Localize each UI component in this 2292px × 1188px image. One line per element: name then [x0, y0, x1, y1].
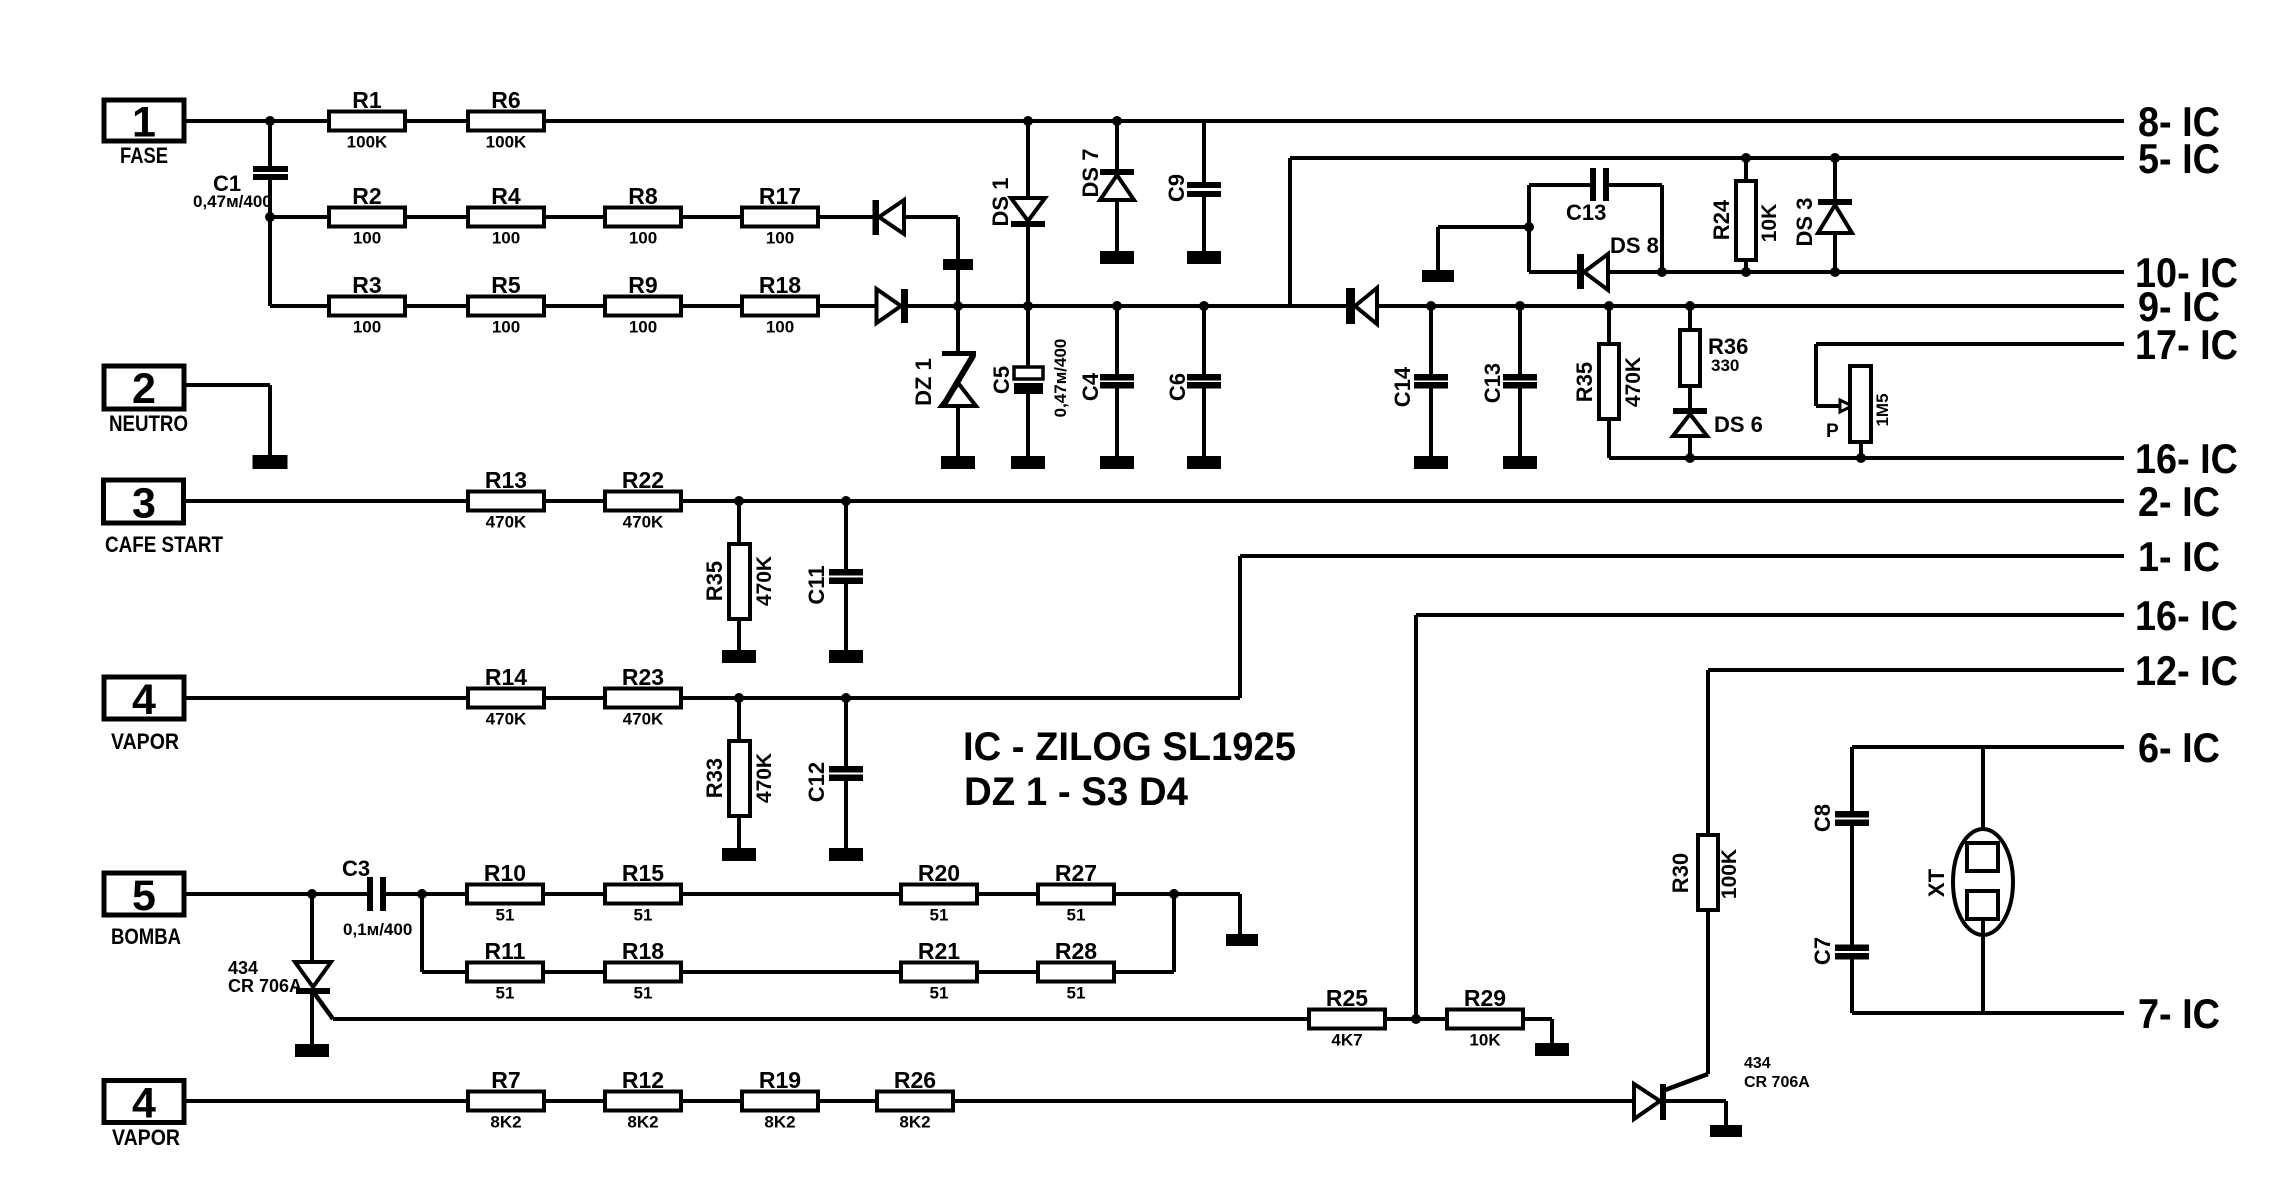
svg-text:8K2: 8K2: [627, 1113, 658, 1132]
svg-text:R17: R17: [759, 183, 801, 209]
svg-text:5- IC: 5- IC: [2138, 135, 2220, 182]
svg-text:DS 6: DS 6: [1714, 412, 1763, 437]
svg-text:10K: 10K: [1469, 1031, 1501, 1050]
svg-text:R18: R18: [622, 938, 664, 964]
svg-text:R5: R5: [491, 272, 521, 298]
svg-text:CR 706A: CR 706A: [228, 976, 302, 996]
svg-text:C8: C8: [1810, 804, 1835, 832]
svg-text:1- IC: 1- IC: [2138, 533, 2220, 580]
svg-text:3: 3: [132, 480, 156, 528]
svg-text:434: 434: [1744, 1055, 1771, 1072]
svg-text:4: 4: [132, 676, 156, 724]
svg-text:7- IC: 7- IC: [2138, 990, 2220, 1037]
svg-text:R23: R23: [622, 664, 664, 690]
svg-text:DS 8: DS 8: [1610, 233, 1659, 258]
svg-text:4: 4: [132, 1080, 156, 1128]
svg-text:CR 706A: CR 706A: [1744, 1074, 1810, 1091]
svg-text:R3: R3: [352, 272, 381, 298]
svg-text:R19: R19: [759, 1067, 801, 1093]
svg-text:8K2: 8K2: [899, 1113, 930, 1132]
svg-text:470K: 470K: [486, 513, 527, 532]
svg-text:NEUTRO: NEUTRO: [109, 411, 188, 436]
svg-text:10K: 10K: [1758, 204, 1781, 243]
svg-text:VAPOR: VAPOR: [111, 729, 179, 754]
svg-text:8K2: 8K2: [490, 1113, 521, 1132]
svg-text:12- IC: 12- IC: [2135, 647, 2238, 694]
svg-text:100K: 100K: [347, 133, 388, 152]
svg-text:C12: C12: [804, 762, 829, 802]
svg-text:C11: C11: [804, 565, 829, 604]
svg-text:51: 51: [930, 984, 949, 1003]
svg-text:VAPOR: VAPOR: [112, 1125, 180, 1150]
svg-text:330: 330: [1711, 356, 1739, 375]
svg-text:R11: R11: [485, 938, 526, 964]
svg-text:IC - ZILOG SL1925: IC - ZILOG SL1925: [963, 725, 1296, 769]
svg-text:R7: R7: [491, 1067, 520, 1093]
svg-text:17- IC: 17- IC: [2135, 321, 2238, 368]
svg-text:0,47м/400: 0,47м/400: [193, 192, 272, 211]
svg-text:C6: C6: [1165, 373, 1190, 401]
svg-text:100: 100: [353, 318, 381, 337]
svg-text:BOMBA: BOMBA: [111, 924, 181, 949]
svg-text:C9: C9: [1164, 174, 1189, 202]
svg-text:R14: R14: [485, 664, 527, 690]
svg-text:16- IC: 16- IC: [2135, 592, 2238, 639]
svg-text:100: 100: [492, 229, 520, 248]
svg-text:5: 5: [132, 872, 156, 920]
svg-text:434: 434: [228, 958, 258, 978]
svg-text:FASE: FASE: [120, 143, 168, 168]
svg-text:470K: 470K: [486, 710, 527, 729]
svg-text:470K: 470K: [623, 710, 664, 729]
svg-text:100: 100: [766, 229, 794, 248]
svg-text:C14: C14: [1390, 366, 1415, 407]
svg-text:100: 100: [353, 229, 381, 248]
svg-text:R29: R29: [1464, 985, 1506, 1011]
svg-text:R2: R2: [352, 183, 381, 209]
svg-text:470K: 470K: [753, 753, 776, 803]
svg-text:0,47м/400: 0,47м/400: [1051, 339, 1070, 418]
svg-text:51: 51: [1067, 984, 1086, 1003]
svg-text:C13: C13: [1566, 200, 1606, 225]
svg-text:DS 7: DS 7: [1078, 149, 1103, 198]
svg-text:R20: R20: [918, 860, 960, 886]
svg-text:2- IC: 2- IC: [2138, 478, 2220, 525]
svg-text:51: 51: [634, 984, 653, 1003]
svg-text:8K2: 8K2: [764, 1113, 795, 1132]
svg-text:0,1м/400: 0,1м/400: [343, 920, 412, 939]
svg-text:470K: 470K: [1622, 357, 1645, 407]
svg-text:51: 51: [496, 906, 515, 925]
svg-text:100: 100: [492, 318, 520, 337]
svg-text:R25: R25: [1326, 985, 1368, 1011]
svg-text:DZ 1 - S3 D4: DZ 1 - S3 D4: [964, 770, 1189, 814]
svg-text:XT: XT: [1924, 868, 1949, 897]
svg-text:100: 100: [629, 318, 657, 337]
svg-text:R18: R18: [759, 272, 801, 298]
svg-text:P: P: [1826, 421, 1839, 442]
svg-text:6- IC: 6- IC: [2138, 724, 2220, 771]
svg-text:R6: R6: [491, 87, 520, 113]
svg-text:51: 51: [496, 984, 515, 1003]
svg-text:R13: R13: [485, 467, 527, 493]
svg-text:R27: R27: [1055, 860, 1097, 886]
svg-text:470K: 470K: [623, 513, 664, 532]
svg-text:100K: 100K: [1718, 849, 1741, 899]
svg-text:R35: R35: [1572, 362, 1597, 402]
svg-text:R33: R33: [702, 758, 727, 798]
svg-text:100K: 100K: [486, 133, 527, 152]
svg-text:R35: R35: [702, 561, 727, 601]
svg-text:C5: C5: [989, 366, 1014, 394]
svg-text:R22: R22: [622, 467, 664, 493]
svg-text:R4: R4: [491, 183, 521, 209]
svg-text:4K7: 4K7: [1331, 1031, 1362, 1050]
svg-text:R10: R10: [484, 860, 526, 886]
svg-text:R24: R24: [1709, 199, 1734, 240]
svg-text:R28: R28: [1055, 938, 1097, 964]
svg-text:DS 3: DS 3: [1792, 198, 1817, 247]
svg-text:C4: C4: [1078, 372, 1103, 401]
svg-text:R12: R12: [622, 1067, 664, 1093]
svg-text:100: 100: [766, 318, 794, 337]
svg-text:1M5: 1M5: [1873, 393, 1892, 426]
svg-text:R8: R8: [628, 183, 658, 209]
svg-text:DS 1: DS 1: [988, 178, 1013, 227]
svg-text:CAFE START: CAFE START: [105, 532, 223, 557]
svg-text:R15: R15: [622, 860, 664, 886]
svg-text:C3: C3: [342, 856, 370, 881]
svg-text:51: 51: [1067, 906, 1086, 925]
svg-text:R30: R30: [1668, 853, 1693, 893]
svg-text:R26: R26: [894, 1067, 936, 1093]
svg-text:100: 100: [629, 229, 657, 248]
svg-text:2: 2: [132, 365, 156, 413]
svg-text:DZ 1: DZ 1: [911, 358, 936, 406]
svg-text:R9: R9: [628, 272, 657, 298]
svg-text:C13: C13: [1480, 363, 1505, 403]
svg-text:51: 51: [930, 906, 949, 925]
svg-text:16- IC: 16- IC: [2135, 435, 2238, 482]
svg-text:470K: 470K: [753, 556, 776, 606]
svg-text:C7: C7: [1810, 937, 1835, 965]
svg-text:R21: R21: [918, 938, 960, 964]
svg-text:51: 51: [634, 906, 653, 925]
svg-text:1: 1: [132, 99, 156, 147]
svg-text:R1: R1: [352, 87, 382, 113]
